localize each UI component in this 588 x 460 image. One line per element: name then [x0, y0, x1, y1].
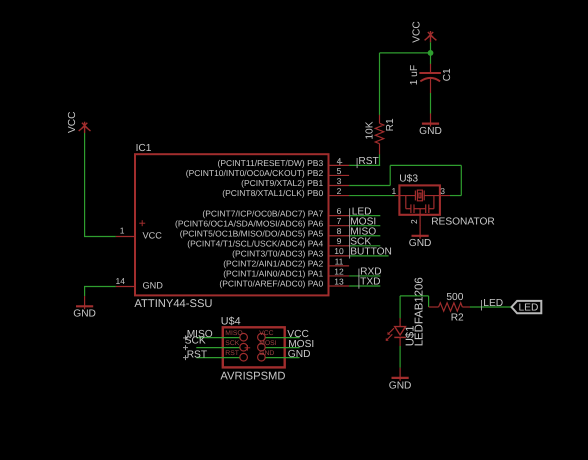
wire R2 to LED port	[470, 306, 512, 308]
junction node VCC	[428, 50, 434, 56]
svg-text:U$3: U$3	[399, 174, 418, 185]
wire LED cathode to ground	[399, 346, 401, 368]
svg-text:AVRISPSMD: AVRISPSMD	[220, 370, 285, 382]
resonator U$3 box	[399, 185, 440, 214]
svg-text:BUTTON: BUTTON	[350, 246, 392, 257]
svg-text:MISO: MISO	[225, 330, 242, 337]
wire GND-left vertical	[84, 287, 86, 297]
U$4 pin SCK (left)	[196, 340, 247, 351]
svg-text:GND: GND	[419, 126, 442, 137]
svg-text:(PCINT4/T1/SCL/USCK/ADC4) PA4: (PCINT4/T1/SCL/USCK/ADC4) PA4	[187, 238, 323, 248]
port flag LED	[512, 301, 542, 314]
svg-text:VCC: VCC	[67, 111, 78, 133]
svg-text:RST: RST	[225, 350, 239, 357]
IC1 pin 13 (PA0)	[219, 276, 349, 288]
wire loop vertical right	[460, 165, 462, 195]
svg-text:VCC: VCC	[143, 231, 163, 241]
IC1 pin 12 (PA1)	[223, 266, 349, 278]
IC1 origin cross	[139, 220, 145, 226]
svg-text:(PCINT7/ICP/OC0B/ADC7) PA7: (PCINT7/ICP/OC0B/ADC7) PA7	[202, 208, 323, 218]
wire junction to C1	[430, 53, 432, 64]
wire net RXD	[349, 275, 380, 277]
svg-text:2: 2	[337, 186, 342, 196]
wire R1 to VCC junction	[380, 52, 431, 54]
wire net MOSI	[349, 225, 380, 227]
svg-text:12: 12	[334, 266, 344, 276]
wire net RST	[349, 164, 380, 166]
svg-text:RST: RST	[187, 349, 207, 360]
svg-text:GND: GND	[389, 380, 412, 391]
net label RST (left of U$4)	[183, 349, 207, 360]
wire LED horizontal to R2	[400, 295, 429, 297]
svg-text:5: 5	[337, 166, 342, 176]
IC1 pin 10 (PA3)	[232, 246, 349, 258]
svg-text:14: 14	[116, 276, 126, 286]
svg-text:1 uF: 1 uF	[409, 65, 420, 85]
svg-text:GND: GND	[259, 350, 274, 357]
wire jog down to R2	[428, 296, 430, 307]
svg-text:GND: GND	[288, 349, 311, 360]
IC1 pin 2 (PB0)	[222, 186, 349, 198]
net label BUTTON	[350, 246, 392, 258]
IC IC1 ATTINY44-SSU box	[135, 154, 329, 295]
power flag VCC (left)	[79, 122, 91, 133]
wire loop horizontal top	[390, 164, 461, 166]
net label SCK (left of U$4)	[183, 335, 206, 350]
IC1 pin 1 (VCC)	[116, 226, 135, 237]
IC1 pin 9 (PA4)	[187, 236, 349, 248]
net label MISO	[350, 226, 377, 238]
U$4 pin MISO (left)	[196, 330, 247, 341]
svg-text:11: 11	[335, 256, 344, 266]
wire net MISO	[349, 235, 380, 237]
svg-text:7: 7	[337, 216, 342, 226]
net label MOSI	[350, 216, 377, 228]
resistor R1	[375, 115, 383, 155]
svg-text:GND: GND	[73, 309, 96, 320]
svg-text:GND: GND	[143, 281, 164, 291]
net label LED (at port)	[482, 298, 504, 311]
wire VCC-left vertical	[84, 133, 86, 237]
resonator pin 2 lead	[419, 215, 421, 226]
wire loop to resonator pin 3	[450, 195, 461, 197]
U$4 origin cross	[245, 345, 251, 351]
wire from IC1 pin 14	[84, 286, 116, 288]
net label TXD	[359, 277, 381, 289]
IC1 pin 14 (GND)	[116, 276, 135, 287]
svg-text:2: 2	[409, 219, 419, 224]
wire R1 top vertical	[379, 53, 381, 115]
svg-text:9: 9	[337, 236, 342, 246]
wire net TXD	[349, 285, 380, 287]
svg-text:R1: R1	[385, 118, 396, 131]
svg-text:U$4: U$4	[221, 316, 241, 328]
wire C1 to ground	[430, 93, 432, 114]
svg-text:3: 3	[440, 186, 445, 196]
svg-text:(PCINT11/RESET/DW) PB3: (PCINT11/RESET/DW) PB3	[218, 158, 324, 168]
net label LED	[350, 206, 372, 218]
svg-text:SCK: SCK	[185, 335, 206, 346]
wire net SCK	[349, 245, 380, 247]
wire IC pin2 to resonator pin 1	[349, 195, 394, 197]
IC1 pin 11 (PA2)	[223, 256, 349, 268]
svg-text:(PCINT1/AIN0/ADC1) PA1: (PCINT1/AIN0/ADC1) PA1	[223, 269, 323, 279]
svg-text:1: 1	[391, 186, 396, 196]
svg-text:(PCINT2/AIN1/ADC2) PA2: (PCINT2/AIN1/ADC2) PA2	[223, 259, 323, 269]
svg-text:(PCINT8/XTAL1/CLK) PB0: (PCINT8/XTAL1/CLK) PB0	[222, 188, 323, 198]
IC1 pin 8 (PA5)	[180, 226, 349, 238]
svg-text:ATTINY44-SSU: ATTINY44-SSU	[134, 298, 212, 310]
svg-text:(PCINT10/INT0/OC0A/CKOUT) PB2: (PCINT10/INT0/OC0A/CKOUT) PB2	[186, 168, 324, 178]
svg-text:MOSI: MOSI	[259, 340, 276, 347]
wire R1 bottom	[379, 154, 381, 166]
net label SCK	[350, 236, 372, 248]
svg-text:13: 13	[334, 276, 344, 286]
svg-text:8: 8	[337, 226, 342, 236]
svg-text:C1: C1	[442, 68, 453, 81]
svg-text:VCC: VCC	[412, 21, 423, 43]
net label RST	[357, 156, 379, 168]
wire IC pin3 to resonator loop	[349, 185, 390, 187]
IC1 pin 3 (PB1)	[241, 176, 349, 188]
svg-text:1: 1	[120, 226, 125, 236]
svg-text:TXD: TXD	[360, 277, 380, 288]
resonator U$3 internal symbol	[395, 190, 451, 215]
svg-text:10K: 10K	[365, 121, 376, 139]
ground (under C1)	[419, 113, 442, 137]
wire net BUTTON	[349, 255, 389, 257]
svg-text:6: 6	[337, 206, 342, 216]
svg-text:R2: R2	[451, 313, 464, 324]
svg-text:IC1: IC1	[136, 143, 152, 154]
svg-text:SCK: SCK	[225, 340, 239, 347]
ground (left)	[73, 296, 96, 320]
LED U$1	[386, 318, 406, 346]
svg-text:(PCINT5/OC1B/MISO/DO/ADC5) PA5: (PCINT5/OC1B/MISO/DO/ADC5) PA5	[180, 228, 324, 238]
svg-text:RESONATOR: RESONATOR	[431, 216, 495, 227]
U$4 pin VCC (right)	[258, 330, 300, 341]
svg-text:LEDFAB1206: LEDFAB1206	[413, 277, 425, 346]
IC1 pin 7 (PA6)	[175, 216, 349, 228]
svg-text:LED: LED	[519, 303, 539, 314]
ground (under LED)	[389, 368, 412, 392]
IC1 pin 4 (PB3)	[218, 156, 350, 168]
wire net LED	[349, 215, 380, 217]
svg-text:RST: RST	[358, 156, 378, 167]
U$4 pin MOSI (right)	[258, 340, 300, 351]
net label MISO (left of U$4)	[183, 329, 213, 340]
U$4 pin RST (left)	[196, 350, 247, 361]
power flag VCC (top right)	[425, 31, 437, 42]
wire VCC to junction	[430, 42, 432, 53]
svg-text:(PCINT6/OC1A/SDA/MOSI/ADC6) PA: (PCINT6/OC1A/SDA/MOSI/ADC6) PA6	[175, 218, 323, 228]
svg-text:10: 10	[334, 246, 344, 256]
capacitor C1	[419, 64, 441, 93]
ISP header U$4 box	[223, 327, 285, 367]
svg-text:GND: GND	[409, 238, 432, 249]
svg-text:3: 3	[337, 176, 342, 186]
U$4 pin GND (right)	[258, 350, 300, 361]
svg-text:(PCINT0/AREF/ADC0) PA0: (PCINT0/AREF/ADC0) PA0	[219, 279, 323, 289]
IC1 pin 5 (PB2)	[186, 166, 349, 178]
svg-text:4: 4	[337, 156, 342, 166]
svg-text:LED: LED	[483, 298, 503, 309]
svg-text:500: 500	[446, 292, 463, 303]
wire to IC1 pin 1	[84, 236, 116, 238]
svg-text:(PCINT9/XTAL2) PB1: (PCINT9/XTAL2) PB1	[241, 178, 323, 188]
wire loop vertical left	[389, 165, 391, 185]
IC1 pin 6 (PA7)	[202, 206, 349, 218]
ground (under resonator)	[409, 226, 432, 250]
svg-text:VCC: VCC	[259, 330, 273, 337]
wire LED anode vertical	[399, 296, 401, 319]
net label RXD	[359, 267, 382, 279]
svg-text:(PCINT3/T0/ADC3) PA3: (PCINT3/T0/ADC3) PA3	[232, 248, 323, 258]
resistor R2	[429, 303, 471, 311]
pin 4 origin cross	[337, 160, 342, 165]
